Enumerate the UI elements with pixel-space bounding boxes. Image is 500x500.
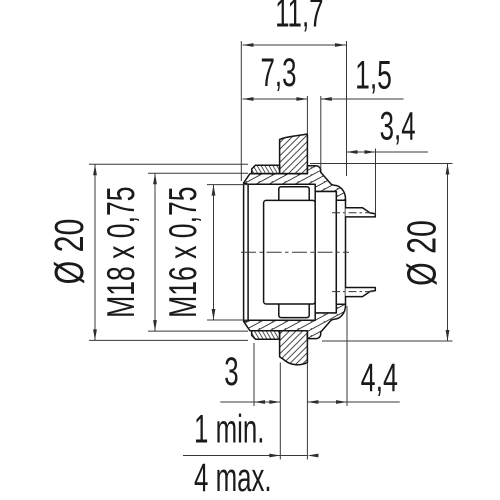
dim line M18 [154, 173, 156, 331]
extension lines top [240, 41, 242, 181]
front nut top [252, 165, 280, 173]
panel bottom [280, 331, 308, 365]
svg-text:1 min.: 1 min. [194, 408, 264, 452]
dim line 4,4 [307, 401, 399, 403]
insert block [264, 200, 316, 304]
body section hatched top [244, 166, 346, 200]
svg-text:M18 x 0,75: M18 x 0,75 [100, 187, 143, 318]
dim line 3 [220, 401, 280, 403]
dim line 11,7 [243, 44, 347, 46]
front face outer line [243, 183, 245, 321]
svg-text:3,4: 3,4 [380, 105, 416, 149]
solder pin top [346, 208, 376, 217]
rear strip [336, 200, 345, 304]
svg-text:4,4: 4,4 [361, 356, 398, 400]
collar top [279, 187, 309, 201]
panel top [280, 134, 308, 174]
svg-text:1,5: 1,5 [355, 54, 392, 97]
dim line dia20 right [447, 164, 449, 342]
svg-text:7,3: 7,3 [261, 52, 297, 96]
dim line 7,3 [243, 98, 308, 100]
dim line 1 min 4 max [183, 455, 307, 457]
rear sleeve [315, 192, 336, 313]
centerline [241, 251, 349, 253]
body section hatched bottom [244, 304, 346, 338]
collar bottom [279, 304, 309, 318]
svg-text:11,7: 11,7 [275, 0, 323, 36]
solder pin bottom [346, 288, 376, 297]
svg-text:Ø 20: Ø 20 [47, 219, 92, 285]
dim line 1,5 [321, 98, 404, 100]
extension lines right [310, 163, 453, 165]
front face inner line [247, 184, 249, 320]
svg-text:Ø 20: Ø 20 [399, 220, 444, 286]
svg-text:4 max.: 4 max. [194, 457, 272, 500]
pin centerline top [332, 212, 375, 214]
dim line 3,4 [347, 151, 429, 153]
extension lines left [89, 163, 248, 165]
svg-text:3: 3 [224, 351, 238, 395]
front nut bottom [252, 331, 280, 339]
dim line dia20 left [94, 164, 96, 340]
extension lines bottom [253, 343, 255, 406]
svg-text:M16 x 0,75: M16 x 0,75 [162, 187, 205, 318]
dim line M16 [213, 185, 215, 320]
pin centerline bottom [332, 291, 375, 293]
